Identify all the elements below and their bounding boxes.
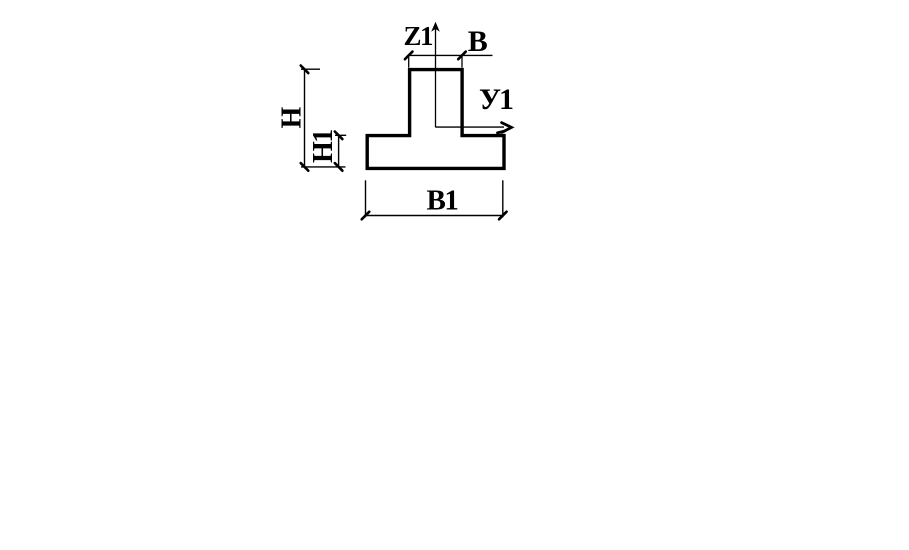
dimension H dim line [304,69,306,167]
label H1 (rotated) [308,130,339,163]
svg-text:B1: B1 [427,185,458,217]
label B [468,25,488,58]
label H (rotated) [277,106,308,128]
Z1 axis line [435,26,437,127]
dimension H bottom tick [301,163,309,171]
label У1 [479,83,513,116]
svg-text:H1: H1 [308,130,339,163]
dimension B1 left extension line [365,180,367,217]
dimension H top tick [301,66,309,74]
dimension B dim line [409,54,493,56]
svg-text:B: B [468,25,488,58]
label Z1 [404,21,434,51]
label B1 [427,185,458,217]
svg-text:Z1: Z1 [404,21,434,51]
dimension B1 dim line [364,215,504,217]
svg-text:H: H [277,106,308,128]
Y1 axis line [436,126,505,128]
dimension H top extension line [301,68,320,70]
dimension B left tick [405,52,413,60]
dimension H/H1 bottom extension line [301,166,346,168]
T-section outline [367,70,504,169]
Z1 axis arrowhead [431,22,440,32]
Y1 axis arrowhead [498,123,512,133]
dimension H1 bottom tick [335,163,343,171]
dimension H1 dim line [338,135,340,167]
dimension B1 right extension line [502,180,504,217]
dimension H1 top tick [335,132,343,140]
dimension B right extension line [461,55,463,67]
dimension B1 right tick [499,212,507,220]
svg-text:У1: У1 [479,83,513,116]
dimension H1 top extension line [335,134,346,136]
dimension B1 left tick [362,212,370,220]
dimension B left extension line [408,55,410,67]
dimension B right tick [458,52,466,60]
